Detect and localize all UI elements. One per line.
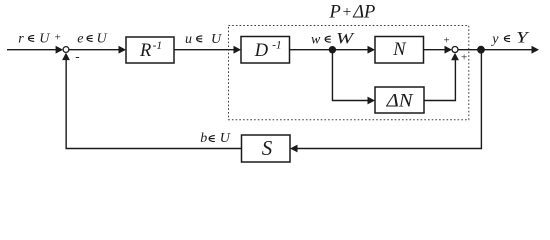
wire: y output from S2 [458,46,539,54]
block D^-1 [241,37,290,64]
svg-text:N: N [392,40,407,60]
svg-text:+: + [55,32,61,44]
wire: branch from node w down to block ΔN [332,50,375,105]
label b ∈ U [200,131,231,146]
wire: N output into summing junction S2 [424,46,453,54]
wire: e from S1 to block R [69,46,126,54]
svg-text:b: b [200,131,207,146]
svg-text:-: - [75,49,79,64]
svg-text:-1: -1 [153,40,163,52]
svg-text:P: P [329,3,341,23]
svg-text:ΔP: ΔP [352,3,375,23]
wire: feedback from node y down and left into block S [290,50,481,153]
wire: u from R to block D [174,46,241,54]
svg-text:e: e [77,32,83,47]
wire: ΔN output up into summing junction S2 [424,53,459,101]
svg-text:+: + [461,52,467,64]
svg-text:Y: Y [516,29,530,46]
svg-text:R: R [139,41,151,61]
svg-text:w: w [311,33,321,48]
svg-text:+: + [444,35,450,47]
svg-text:u: u [185,32,192,47]
wire: b from S left and up into summing junction S1 [62,53,241,149]
node w (branch dot) [329,46,336,53]
wire: w from D to block N [290,46,376,54]
svg-text:r: r [18,32,24,47]
summing junction S1 [63,47,69,53]
label w ∈ W [311,30,355,48]
svg-text:y: y [490,32,499,47]
block S [242,135,291,162]
block N [375,37,424,64]
sign + lower at summing junction S2 [461,52,467,64]
svg-text:D: D [254,41,269,61]
sign + upper at summing junction S2 [444,35,450,47]
wire: input r into summing junction S1 [7,46,63,54]
sign + at summing junction S1 [55,32,61,44]
svg-text:W: W [336,30,355,47]
label e ∈ U [77,32,107,47]
svg-text:U: U [39,32,50,47]
label y ∈ Y [490,29,529,47]
svg-text:U: U [97,32,108,47]
svg-text:U: U [220,131,231,146]
block R^-1 [126,37,174,63]
svg-text:+: + [343,4,352,21]
svg-text:ΔN: ΔN [385,91,414,111]
summing junction S2 [452,47,458,53]
label r ∈ U [18,32,50,47]
label P + ΔP [329,3,376,23]
label u ∈ U [185,32,222,47]
svg-text:U: U [211,32,222,47]
svg-text:-1: -1 [272,39,282,51]
block ΔN [375,87,424,113]
dashed uncertainty box P + ΔP [229,26,469,120]
node y (branch dot) [477,46,485,54]
sign - at summing junction S1 [75,49,79,64]
svg-text:S: S [262,136,273,160]
